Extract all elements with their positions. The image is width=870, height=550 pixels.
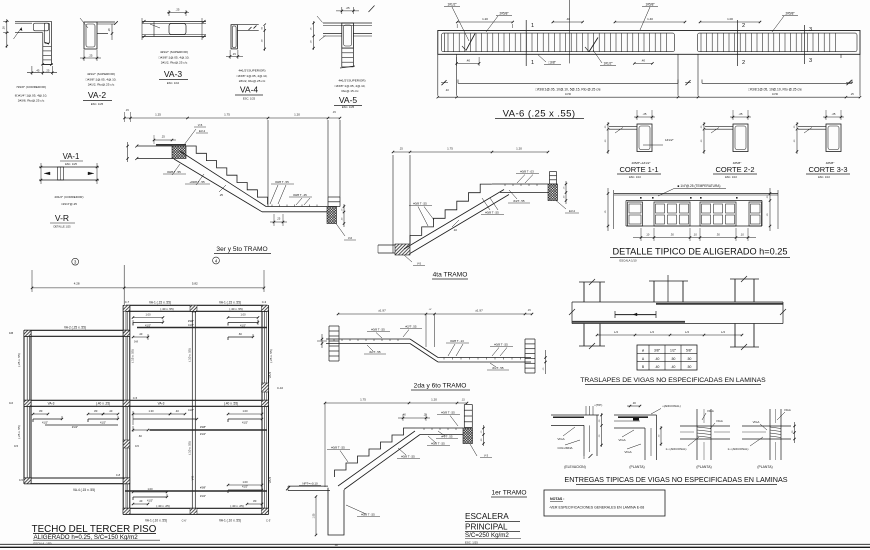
svg-text:□#3/8″:1@.05, 4@.10,: □#3/8″:1@.05, 4@.10, xyxy=(86,78,117,82)
stirrup spacing bracket right xyxy=(702,82,852,84)
svg-text:1.75: 1.75 xyxy=(224,113,230,117)
columns hatched on VA-3 xyxy=(24,400,31,406)
svg-text:L/4: L/4 xyxy=(614,330,618,334)
bent bar left in VA-6 xyxy=(466,34,475,51)
lap splice bar xyxy=(615,314,656,316)
svg-text:#1/2″: #1/2″ xyxy=(200,494,206,498)
dimension 1.40 over VA-6 xyxy=(615,21,685,23)
svg-text:□#3/8″:1@.05, 4@.10,: □#3/8″:1@.05, 4@.10, xyxy=(237,74,268,78)
detail entregas (ELEVACION) xyxy=(551,403,603,469)
svg-text:1#5/8″: 1#5/8″ xyxy=(645,3,655,7)
V-3 leader stair 1 xyxy=(470,444,477,456)
left landing slab stair 3 xyxy=(137,145,172,147)
svg-text:(.40 x .55): (.40 x .55) xyxy=(224,402,238,406)
svg-text:□#3/8″:1@.05, 4@.10,: □#3/8″:1@.05, 4@.10, xyxy=(335,84,366,88)
beam section VA-3 xyxy=(142,8,206,86)
svg-text:VA-3: VA-3 xyxy=(48,402,55,406)
rebar mark .40 below C-7 xyxy=(132,332,254,344)
svg-text:DETALLE 1/25: DETALLE 1/25 xyxy=(53,225,71,229)
EV-2 leader stair 4 xyxy=(556,201,566,210)
svg-text:.45: .45 xyxy=(36,68,40,72)
svg-text:2#3/8, Rto@.25 c/c: 2#3/8, Rto@.25 c/c xyxy=(18,99,45,103)
svg-text:□3/8″: □3/8″ xyxy=(548,61,556,65)
svg-text:ESC. 1/25: ESC. 1/25 xyxy=(342,105,355,109)
svg-text:.25: .25 xyxy=(423,414,427,417)
stirrup spacing bracket left xyxy=(458,82,678,84)
svg-text:.50: .50 xyxy=(671,357,676,361)
right column stair 2 xyxy=(524,339,526,373)
vertical dim left of aligerado xyxy=(607,188,609,231)
svg-text:(ELEVACION): (ELEVACION) xyxy=(564,465,585,469)
svg-text:#3/8 T·.55: #3/8 T·.55 xyxy=(494,343,508,347)
axis line through VA-6 xyxy=(569,0,571,63)
top dimension line of plan xyxy=(31,270,33,292)
svg-text:□#3/8:1@.05, 10@.10, 5@.15, Rt: □#3/8:1@.05, 10@.10, 5@.15, Rto @.25 c/e xyxy=(535,88,600,92)
svg-text:0-5: 0-5 xyxy=(14,444,18,448)
dimension .40 over VA-6 xyxy=(553,21,583,23)
svg-text:VA-4: VA-4 xyxy=(240,85,259,95)
wall right exterior xyxy=(261,305,263,514)
svg-text:4ta TRAMO: 4ta TRAMO xyxy=(433,272,468,279)
svg-text:1/2″: 1/2″ xyxy=(670,349,677,353)
steps of stair 1 descending-left xyxy=(335,428,416,477)
svg-text:#1/T·.55: #1/T·.55 xyxy=(492,366,504,370)
svg-text:VIGA: VIGA xyxy=(716,419,723,423)
brick block A xyxy=(654,202,690,226)
svg-text:CORTE 2-2: CORTE 2-2 xyxy=(715,165,754,174)
svg-text:Rto@.15 c/c: Rto@.15 c/c xyxy=(341,89,359,93)
svg-text:(.15 x .55): (.15 x .55) xyxy=(131,349,135,363)
beam section VA-5 (T-section) xyxy=(311,6,375,110)
svg-text:VA-2: VA-2 xyxy=(88,90,107,100)
svg-text:4.28: 4.28 xyxy=(74,282,80,286)
wall left block bottom beam VA-4 xyxy=(24,477,130,479)
svg-text:2: 2 xyxy=(742,60,745,66)
column right of traslapes xyxy=(734,279,736,302)
svg-text:.40: .40 xyxy=(655,365,660,369)
sloped slab stair 1 xyxy=(338,431,415,486)
svg-text:.60: .60 xyxy=(138,434,142,438)
svg-text:S/C=250 Kg/m2: S/C=250 Kg/m2 xyxy=(465,532,509,539)
svg-text:.30: .30 xyxy=(632,401,636,405)
svg-text:1#1/2″: 1#1/2″ xyxy=(447,3,457,7)
svg-text:2#5/8″: 2#5/8″ xyxy=(785,12,795,16)
section CORTE 2-2 xyxy=(701,110,757,179)
svg-text:10.50: 10.50 xyxy=(565,93,572,96)
svg-text:#3/8 T·.55: #3/8 T·.55 xyxy=(401,455,415,459)
svg-text:2#1/2, Rto@.25 c/c: 2#1/2, Rto@.25 c/c xyxy=(161,61,188,65)
svg-text:L/4: L/4 xyxy=(721,330,725,334)
svg-text:.15: .15 xyxy=(332,111,336,114)
svg-text:VA-5: VA-5 xyxy=(339,95,358,105)
svg-text:□(TIP.): □(TIP.) xyxy=(594,403,602,407)
notes box xyxy=(544,490,665,516)
vertical dim 1.05 stair 1 xyxy=(315,497,317,536)
landing slab stair 1 xyxy=(415,427,463,429)
svg-text:4#1/2″(SUPERIOR): 4#1/2″(SUPERIOR) xyxy=(238,69,265,73)
svg-text:VA-5: VA-5 xyxy=(268,371,272,378)
svg-text:#3/8″: #3/8″ xyxy=(200,486,206,490)
svg-text:#2/T·.55: #2/T·.55 xyxy=(405,325,417,329)
svg-text:L/4: L/4 xyxy=(685,330,689,334)
svg-text:1□ (ADICIONAL): 1□ (ADICIONAL) xyxy=(728,447,749,451)
landing slab stair 4 xyxy=(492,183,548,185)
svg-text:1.00: 1.00 xyxy=(242,409,248,413)
wall top beam right block VA-1 xyxy=(126,304,268,306)
svg-text:#3/8 T·.55: #3/8 T·.55 xyxy=(413,202,427,206)
left end dims stair 2 xyxy=(321,334,323,348)
top dimension line stair 3 xyxy=(125,117,341,119)
dimension 1.20 over VA-6 xyxy=(457,21,513,23)
brick block B xyxy=(700,202,736,226)
V-5 leader stair 4 xyxy=(404,255,412,262)
rebar marks lower right block xyxy=(125,480,267,505)
svg-text:4#1/2″ (SUPERIOR): 4#1/2″ (SUPERIOR) xyxy=(87,72,115,76)
svg-text:1.20: 1.20 xyxy=(431,398,437,402)
svg-text:ESC. 1/10: ESC. 1/10 xyxy=(725,175,737,179)
svg-text:5.82: 5.82 xyxy=(192,282,198,286)
stair section 2da y 6to TRAMO xyxy=(317,309,547,391)
detail V-R with VA-1 label xyxy=(39,152,99,229)
svg-text:3: 3 xyxy=(809,27,812,33)
svg-text:1.00: 1.00 xyxy=(242,480,248,484)
svg-text:1.00: 1.00 xyxy=(240,313,246,317)
svg-text:.10: .10 xyxy=(646,233,650,237)
svg-text:C-6′: C-6′ xyxy=(182,519,187,523)
svg-text:VA-1 (.15 x .55): VA-1 (.15 x .55) xyxy=(219,300,241,304)
svg-text:.40: .40 xyxy=(445,88,449,92)
svg-text:.50: .50 xyxy=(687,365,692,369)
svg-text:VIGA: VIGA xyxy=(557,437,564,441)
section CORTE 1-1 xyxy=(605,110,674,179)
svg-text:ESCALA : 1/50: ESCALA : 1/50 xyxy=(34,542,52,546)
svg-text:.40: .40 xyxy=(671,365,676,369)
svg-text:8□#1/4″:1@.05, 4@.10,: 8□#1/4″:1@.05, 4@.10, xyxy=(15,94,48,98)
svg-text:2da y 6to TRAMO: 2da y 6to TRAMO xyxy=(414,383,467,390)
columns hatched bottom left beam xyxy=(24,478,31,484)
top dimension line stair 1 xyxy=(325,402,467,404)
svg-text:ESC. 1/25: ESC. 1/25 xyxy=(65,162,77,166)
rebar marks upper right block xyxy=(132,313,267,328)
table of lap lengths xyxy=(637,345,697,370)
svg-text:#3/8 T·.55: #3/8 T·.55 xyxy=(431,442,445,446)
svg-text:VA-2 (.25 x .55): VA-2 (.25 x .55) xyxy=(64,326,86,330)
right dim stair 2 xyxy=(545,350,547,374)
svg-text:ESC. 1/10: ESC. 1/10 xyxy=(629,175,641,179)
svg-text:.40: .40 xyxy=(566,17,571,21)
svg-text:C-6: C-6 xyxy=(192,310,197,314)
svg-text:.80: .80 xyxy=(94,409,98,413)
svg-text:.25: .25 xyxy=(89,54,93,58)
svg-text:.25: .25 xyxy=(176,8,180,12)
svg-text:.25: .25 xyxy=(219,193,223,197)
leader V-6 from block xyxy=(336,224,345,237)
svg-text:1.75: 1.75 xyxy=(447,147,453,151)
right dim stair 1 xyxy=(483,425,485,446)
svg-text:VIGA: VIGA xyxy=(707,409,714,413)
svg-text:1□ (ADICIONAL): 1□ (ADICIONAL) xyxy=(666,447,687,451)
svg-text:V-6: V-6 xyxy=(348,236,353,240)
svg-text:VA-5: VA-5 xyxy=(268,476,272,483)
svg-text:EV-4: EV-4 xyxy=(199,129,206,133)
svg-text:1#1/2″: 1#1/2″ xyxy=(665,138,674,142)
hatched block right stair 4 xyxy=(548,184,558,201)
detail DETALLE TIPICO DE ALIGERADO xyxy=(605,184,790,263)
svg-text:#1/2″: #1/2″ xyxy=(72,425,78,429)
svg-text:V-5: V-5 xyxy=(198,123,203,127)
detail entregas (PLANTA) tee xyxy=(728,408,796,469)
support lines left of VA-6 xyxy=(437,54,439,95)
hatched support block stair 3 xyxy=(172,146,186,159)
column left of traslapes xyxy=(583,282,585,302)
svg-text:41/2″: 41/2″ xyxy=(100,421,106,425)
svg-text:.25: .25 xyxy=(161,135,165,139)
svg-text:.40: .40 xyxy=(466,59,471,63)
svg-text:C-10: C-10 xyxy=(277,386,284,390)
detail entregas (PLANTA) corner xyxy=(614,401,681,469)
svg-text:V-E: V-E xyxy=(191,476,195,481)
svg-text:4#1/2″(SUPERIOR): 4#1/2″(SUPERIOR) xyxy=(338,79,365,83)
top dimension line stair 2 xyxy=(338,313,532,315)
svg-text:VIGA: VIGA xyxy=(784,408,791,412)
svg-text:(.25 x .55): (.25 x .55) xyxy=(17,353,21,367)
vertical dim right of aligerado xyxy=(769,188,771,231)
bottom border line xyxy=(0,543,870,545)
svg-text:.40: .40 xyxy=(139,499,143,503)
svg-text:0-B: 0-B xyxy=(9,331,13,335)
svg-text:2#1/2″ (CORREDOR): 2#1/2″ (CORREDOR) xyxy=(55,195,84,199)
small dims above landing stair 1 xyxy=(398,417,430,419)
column stub above block stair 4 xyxy=(549,172,551,185)
svg-text:C-3′: C-3′ xyxy=(266,519,271,523)
svg-text:5/8″: 5/8″ xyxy=(686,349,693,353)
svg-text:.25: .25 xyxy=(739,112,743,116)
rebar marks above VA-3 left block xyxy=(32,409,119,429)
svg-text:VA-6 (.25 x .55): VA-6 (.25 x .55) xyxy=(503,109,576,120)
svg-text:.15: .15 xyxy=(125,109,129,112)
svg-text:.10: .10 xyxy=(693,233,697,237)
svg-text:#4/T·.55: #4/T·.55 xyxy=(513,199,525,203)
wall middle vertical xyxy=(122,305,124,514)
svg-text:ESC. 1/25: ESC. 1/25 xyxy=(91,102,104,106)
brick block left partial xyxy=(628,202,643,226)
base slab left stub xyxy=(378,244,395,246)
svg-text:.40: .40 xyxy=(655,357,660,361)
svg-text:.10: .10 xyxy=(453,228,457,232)
svg-text:41/2″: 41/2″ xyxy=(42,421,48,425)
svg-text:1.40: 1.40 xyxy=(647,17,653,21)
svg-text:V-5: V-5 xyxy=(417,262,422,266)
hatched block right stair 3 xyxy=(327,207,337,224)
svg-text:□#3/8″:1@.05, 4@.10,: □#3/8″:1@.05, 4@.10, xyxy=(159,56,190,60)
svg-text:0-6: 0-6 xyxy=(9,401,13,405)
rebar marks above VA-3 right block xyxy=(132,408,267,448)
svg-text:#3/8 T·.03: #3/8 T·.03 xyxy=(520,170,534,174)
column hatched VA-2 right end xyxy=(123,330,130,336)
svg-text:PRINCIPAL: PRINCIPAL xyxy=(465,523,508,532)
corner beam section detail (top-left) xyxy=(2,19,58,103)
section line 2-2 xyxy=(737,20,739,66)
right dim stair 4 xyxy=(565,181,567,204)
svg-text:ALIGERADO h=0.25, S/C=150 K: ALIGERADO h=0.25, S/C=150 Kg/m2 xyxy=(34,534,139,541)
svg-text:41/2″: 41/2″ xyxy=(188,408,194,412)
svg-text:.20: .20 xyxy=(108,28,111,32)
svg-text:(.10 x .55): (.10 x .55) xyxy=(187,441,191,455)
wall lines right stair 3 xyxy=(267,120,269,207)
floor slab left stair 1 xyxy=(288,485,328,487)
bent bar right in VA-6 xyxy=(589,38,598,52)
svg-text:.25: .25 xyxy=(277,217,281,221)
svg-text:1.75: 1.75 xyxy=(360,398,366,402)
floor plan TECHO DEL TERCER PISO xyxy=(9,258,284,545)
svg-text:NPT=+0.10: NPT=+0.10 xyxy=(302,482,318,486)
svg-text:2#1/2, Rto@.25 c/c: 2#1/2, Rto@.25 c/c xyxy=(88,83,115,87)
hatched base block stair 4 xyxy=(395,244,410,255)
svg-text:.20: .20 xyxy=(2,26,6,30)
sloped slab stair 4 xyxy=(404,190,504,250)
svg-text:VIGA: VIGA xyxy=(753,420,760,424)
svg-text:ESCALERA: ESCALERA xyxy=(465,512,509,521)
svg-text:.30: .30 xyxy=(716,233,720,237)
section line 3-3 xyxy=(803,25,805,64)
column middle of traslapes xyxy=(653,281,655,302)
svg-text:(PLANTA): (PLANTA) xyxy=(629,465,644,469)
hatched block stair 1 xyxy=(463,428,473,444)
stair section 3er y 5to TRAMO xyxy=(123,109,356,264)
detail entregas (PLANTA) cross xyxy=(666,409,730,469)
section CORTE 3-3 xyxy=(794,110,850,179)
svg-text:.10: .10 xyxy=(740,233,744,237)
svg-text:1.25: 1.25 xyxy=(155,113,161,117)
svg-text:□#3/8:1@.05, 10@.10, Rto @.25: □#3/8:1@.05, 10@.10, Rto @.25 c/e xyxy=(748,88,802,92)
svg-text:1.00: 1.00 xyxy=(145,313,151,317)
column hatched VA-2 left end xyxy=(24,330,31,336)
svg-text:0-5: 0-5 xyxy=(135,444,139,448)
wall left block top beam VA-2 xyxy=(24,329,130,331)
column line center (.10x.55) xyxy=(191,311,193,508)
svg-text:.25: .25 xyxy=(346,6,350,10)
svg-text:ESC. 1/10: ESC. 1/10 xyxy=(167,81,180,85)
svg-text:C-5: C-5 xyxy=(19,478,24,482)
column C-3 hatched xyxy=(262,305,269,311)
svg-text:.25: .25 xyxy=(399,147,403,151)
svg-text:ESCALA 1/10: ESCALA 1/10 xyxy=(619,259,637,263)
steps of stair 3 descending xyxy=(186,146,268,204)
beam elevation VA-6 xyxy=(437,0,862,120)
svg-text:(PLANTA): (PLANTA) xyxy=(696,465,711,469)
svg-text:(.25 x .55): (.25 x .55) xyxy=(17,425,21,439)
svg-text:C-5: C-5 xyxy=(133,396,138,400)
svg-text:.25: .25 xyxy=(643,112,647,116)
svg-text:TRASLAPES DE VIGAS NO ESPE: TRASLAPES DE VIGAS NO ESPECIFICADAS EN L… xyxy=(580,377,766,384)
left wall stair 4 xyxy=(392,155,394,253)
steps of stair 4 ascending xyxy=(410,184,492,244)
svg-text:ESC. 1/10: ESC. 1/10 xyxy=(818,175,830,179)
column C-6 mid hatched xyxy=(123,440,130,448)
columns hatched bottom right beam xyxy=(123,508,130,514)
dim .25 below landing xyxy=(273,214,275,226)
svg-text:ENTREGAS TIPICAS DE VIGAS: ENTREGAS TIPICAS DE VIGAS NO ESPECIFICAD… xyxy=(564,475,787,484)
svg-text:1.05: 1.05 xyxy=(313,513,316,518)
svg-text:VA-4 (.15 x .55): VA-4 (.15 x .55) xyxy=(73,488,95,492)
svg-text:#4/T·.55: #4/T·.55 xyxy=(441,435,453,439)
svg-text:.60: .60 xyxy=(238,332,242,336)
svg-text:#3/8 T·.55: #3/8 T·.55 xyxy=(485,211,499,215)
right dim stair 3 xyxy=(343,204,345,227)
svg-text:VA-3: VA-3 xyxy=(164,69,183,79)
svg-text:VA-1 (.10 x .55): VA-1 (.10 x .55) xyxy=(219,519,241,523)
svg-text:#3/8 T·.45: #3/8 T·.45 xyxy=(293,193,307,197)
stair section 4ta TRAMO xyxy=(378,147,579,280)
column stub above block stair 1 xyxy=(463,405,465,428)
svg-text:VA-1 (.15 x .55): VA-1 (.15 x .55) xyxy=(149,300,171,304)
wall stair 1 xyxy=(328,488,344,535)
svg-text:.40: .40 xyxy=(109,409,113,413)
grid bubble 4 below stair 3 xyxy=(213,257,220,264)
svg-text:±1.97: ±1.97 xyxy=(475,309,483,313)
svg-text:.40: .40 xyxy=(641,59,646,63)
wall left exterior xyxy=(23,330,25,483)
svg-text:C-7: C-7 xyxy=(125,300,130,304)
svg-text:(.40 x .55): (.40 x .55) xyxy=(229,307,243,311)
svg-text:□(ADICIONAL): □(ADICIONAL) xyxy=(662,404,681,408)
svg-text:#3/8″: #3/8″ xyxy=(188,319,194,323)
wall VA-3 middle beam xyxy=(24,399,269,401)
svg-text:3er y 5to TRAMO: 3er y 5to TRAMO xyxy=(216,246,267,253)
sloped slab stair 3 xyxy=(174,159,262,212)
svg-text:.25: .25 xyxy=(832,112,836,116)
svg-text:COLUMNA: COLUMNA xyxy=(557,446,572,450)
svg-text:L/4: L/4 xyxy=(650,330,654,334)
middle support of VA-6 xyxy=(677,54,679,95)
svg-text:(.25 x .55): (.25 x .55) xyxy=(269,349,273,363)
svg-text:2: 2 xyxy=(742,23,745,29)
top dimension line stair 4 xyxy=(393,151,548,153)
svg-text:.15: .15 xyxy=(232,52,236,56)
svg-text:7#1/8″ (CORREDOR): 7#1/8″ (CORREDOR) xyxy=(16,85,46,89)
svg-text:2#1/2, Rto@.25 c/c: 2#1/2, Rto@.25 c/c xyxy=(239,79,266,83)
svg-text:1er TRAMO: 1er TRAMO xyxy=(491,490,526,497)
upper slab stair 2 xyxy=(326,338,410,340)
svg-text:3/8″: 3/8″ xyxy=(654,349,661,353)
landing slab bottom stair 3 xyxy=(266,206,327,208)
wall right block bottom beam VA-1 lower xyxy=(123,507,269,509)
svg-text:4#1/2″ (SUPERIOR): 4#1/2″ (SUPERIOR) xyxy=(160,50,188,54)
svg-text:VIGA: VIGA xyxy=(624,450,631,454)
svg-text:#3/8″: #3/8″ xyxy=(200,425,206,429)
svg-text:#3/8 T·.55: #3/8 T·.55 xyxy=(275,180,289,184)
svg-text:41/2″: 41/2″ xyxy=(147,499,153,503)
svg-text:NOTAS :: NOTAS : xyxy=(550,497,565,501)
svg-text:EV-2: EV-2 xyxy=(569,209,576,213)
dimension row under aligerado xyxy=(640,228,642,241)
svg-text:.25: .25 xyxy=(46,68,50,72)
svg-text:■ 1/4″@.25 (TEMPERATURA): ■ 1/4″@.25 (TEMPERATURA) xyxy=(678,184,721,188)
column C-6 top hatched xyxy=(190,305,197,311)
svg-text:#3/8 T·.55: #3/8 T·.55 xyxy=(441,411,455,415)
svg-text:.40: .40 xyxy=(139,332,143,336)
svg-text:VA-3: VA-3 xyxy=(158,402,165,406)
svg-text:#1/2″: #1/2″ xyxy=(200,432,206,436)
svg-text:#3/8 T·.55: #3/8 T·.55 xyxy=(361,513,375,517)
dimension .40 below right xyxy=(634,62,652,64)
section line 1-1 xyxy=(525,20,527,66)
svg-text:0-8: 0-8 xyxy=(134,340,138,344)
support line right of VA-6 xyxy=(859,54,861,95)
svg-text:□#1/4″@.25: □#1/4″@.25 xyxy=(61,202,77,206)
left column stair 2 xyxy=(328,326,330,361)
svg-text:.30: .30 xyxy=(670,233,674,237)
